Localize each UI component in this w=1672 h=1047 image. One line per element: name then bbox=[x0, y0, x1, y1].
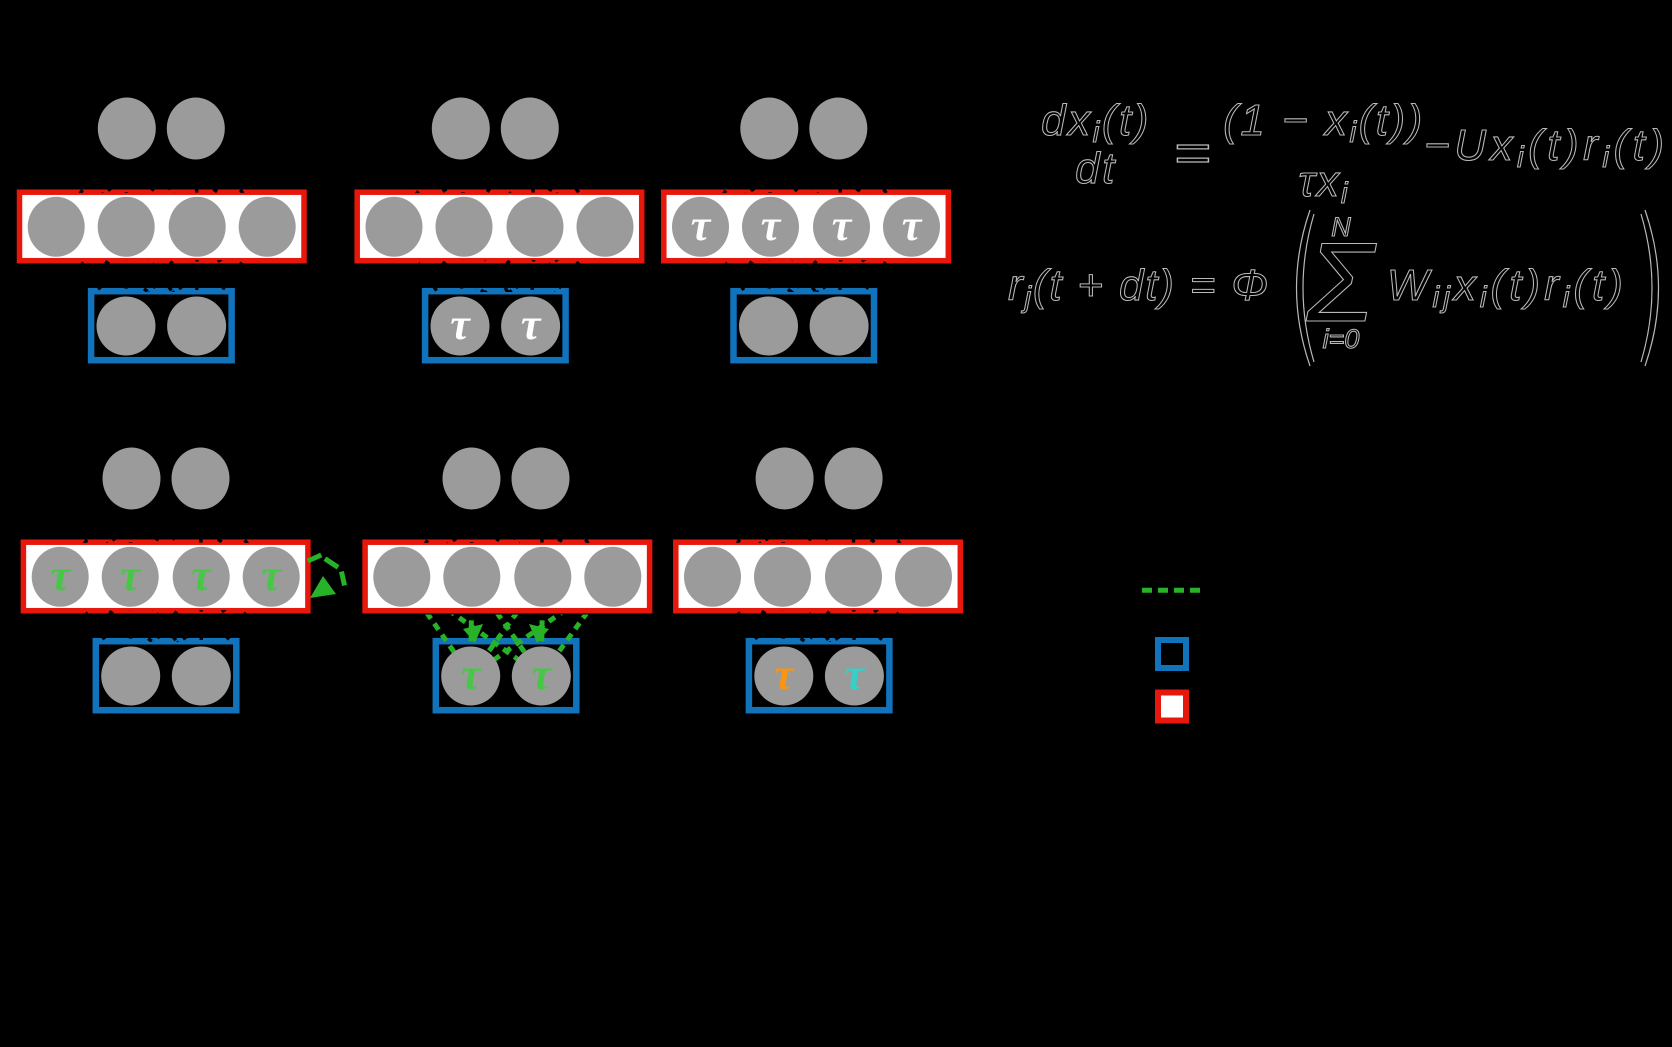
svg-text:dt: dt bbox=[1075, 144, 1117, 193]
circles g1 bbox=[98, 98, 156, 160]
svg-text:τ: τ bbox=[845, 650, 866, 699]
svg-text:τ: τ bbox=[761, 201, 782, 250]
svg-text:(1 − xi(t)): (1 − xi(t)) bbox=[1223, 96, 1425, 149]
legend blue square bbox=[1158, 640, 1186, 668]
black dashed connections g1 bbox=[74, 154, 109, 203]
svg-text:Wijxi(t)ri(t): Wijxi(t)ri(t) bbox=[1387, 261, 1627, 314]
svg-text:τ: τ bbox=[832, 201, 853, 250]
circles g5 bbox=[443, 448, 501, 510]
red box g2 bbox=[357, 192, 642, 261]
equation 2 bbox=[1008, 210, 1659, 366]
svg-text:τ: τ bbox=[50, 551, 71, 600]
svg-text:τ: τ bbox=[691, 201, 712, 250]
svg-text:τ: τ bbox=[532, 650, 553, 699]
svg-text:τ: τ bbox=[120, 551, 141, 600]
svg-text:i=0: i=0 bbox=[1323, 324, 1360, 354]
black dashed connections g3 bbox=[718, 154, 752, 202]
svg-text:τ: τ bbox=[902, 201, 923, 250]
red box g5 bbox=[365, 542, 649, 611]
blue box g2 bbox=[425, 291, 565, 360]
svg-text:τ: τ bbox=[521, 300, 542, 349]
svg-text:=: = bbox=[1173, 124, 1210, 183]
equation 1 bbox=[1041, 96, 1668, 210]
group g4 bbox=[23, 448, 344, 711]
eq1 equals bbox=[1173, 124, 1210, 183]
blue box g1 bbox=[91, 291, 232, 360]
circles g6 bbox=[756, 448, 814, 510]
red box g1 bbox=[20, 192, 305, 261]
red box g4 bbox=[23, 542, 308, 611]
blue box g6 bbox=[749, 641, 890, 710]
group g2 bbox=[357, 98, 642, 361]
svg-text:τ: τ bbox=[191, 551, 212, 600]
blue box g5 bbox=[436, 641, 577, 710]
circles g3 bbox=[740, 98, 798, 160]
black dashed connections g4 bbox=[78, 504, 114, 553]
svg-text:τ: τ bbox=[261, 551, 282, 600]
green dashed connections g5 bbox=[419, 594, 595, 660]
green arrowheads g5 bbox=[463, 624, 483, 643]
svg-text:τ: τ bbox=[450, 300, 471, 349]
svg-text:−Uxi(t)ri(t): −Uxi(t)ri(t) bbox=[1424, 121, 1669, 174]
svg-text:τ: τ bbox=[461, 650, 482, 699]
svg-text:τ: τ bbox=[774, 650, 795, 699]
black dashed connections g6 bbox=[730, 504, 766, 553]
blue box g3 bbox=[734, 291, 875, 360]
green self-loop arrow g4 bbox=[310, 556, 319, 560]
circles g2 bbox=[432, 98, 490, 160]
svg-text:N: N bbox=[1331, 212, 1351, 242]
legend green dashed line bbox=[1142, 588, 1202, 593]
red box g3 bbox=[664, 192, 949, 261]
eq2 big right paren bbox=[1645, 210, 1659, 366]
blue box g4 bbox=[96, 641, 237, 710]
svg-text:rj(t + dt) = Φ: rj(t + dt) = Φ bbox=[1008, 261, 1270, 314]
circles g4 bbox=[103, 448, 161, 510]
black dashed connections g5 bbox=[419, 504, 453, 553]
eq2 big left paren bbox=[1297, 210, 1311, 366]
legend red square bbox=[1158, 693, 1186, 721]
group g5 bbox=[365, 448, 649, 711]
group g6 bbox=[676, 448, 961, 711]
group g3 bbox=[664, 98, 949, 361]
group g1 bbox=[20, 98, 305, 361]
black dashed connection lines (notches on borders) bbox=[74, 146, 907, 659]
red box g6 bbox=[676, 542, 961, 611]
black dashed connections g2 bbox=[411, 154, 444, 202]
